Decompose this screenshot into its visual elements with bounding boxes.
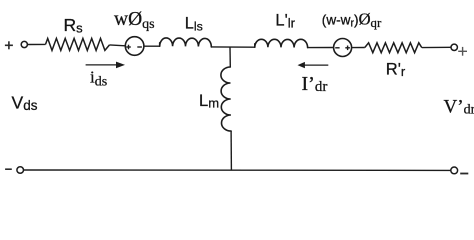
minus sign bottom-left: [5, 168, 12, 170]
svg-text:ids: ids: [90, 68, 107, 90]
bottom rail wire: [24, 169, 451, 171]
current arrow i_ds: [86, 62, 125, 69]
dependent source (w-wr)Phi_qr: [334, 39, 352, 57]
inductor L'_lr: [255, 39, 308, 47]
wire source U2 to R'_r: [352, 47, 365, 49]
wire L'_lr to source U2: [308, 47, 334, 49]
inductor L_ls: [160, 38, 212, 47]
svg-text:Lm: Lm: [199, 92, 219, 111]
svg-text:R'r: R'r: [386, 60, 406, 79]
svg-text:wØqs: wØqs: [114, 9, 155, 32]
dependent source wPhi_qs: [125, 37, 144, 56]
svg-text:Rs: Rs: [64, 15, 84, 36]
wire terminal to R_s: [28, 43, 46, 45]
terminal bottom-right: [451, 167, 458, 174]
plus sign top-right: [458, 47, 467, 56]
wire R_s to source U1: [110, 44, 126, 47]
inductor L_m: [221, 67, 231, 131]
current arrow I'_dr: [298, 62, 329, 68]
svg-text:Vds: Vds: [12, 93, 38, 114]
wire junction down to L_m: [229, 47, 231, 67]
wire source U1 to L_ls: [144, 45, 160, 47]
terminal top-right: [451, 44, 457, 50]
plus sign top-left: [5, 41, 13, 49]
terminal bottom-left: [17, 167, 24, 174]
minus sign bottom-right: [460, 173, 468, 175]
wire L_m to bottom rail: [230, 131, 232, 170]
svg-text:(w-wr)Øqr: (w-wr)Øqr: [322, 9, 382, 30]
wire L_ls to junction to L'_lr: [211, 46, 255, 48]
svg-text:Lls: Lls: [185, 15, 203, 34]
svg-text:L'lr: L'lr: [275, 12, 295, 31]
resistor R_s: [46, 38, 110, 50]
svg-text:I’dr: I’dr: [302, 73, 328, 95]
wire R'_r to terminal top-right: [422, 46, 451, 48]
svg-text:V’dr: V’dr: [444, 97, 474, 118]
resistor R'_r: [365, 43, 422, 53]
terminal top-left: [21, 41, 27, 47]
